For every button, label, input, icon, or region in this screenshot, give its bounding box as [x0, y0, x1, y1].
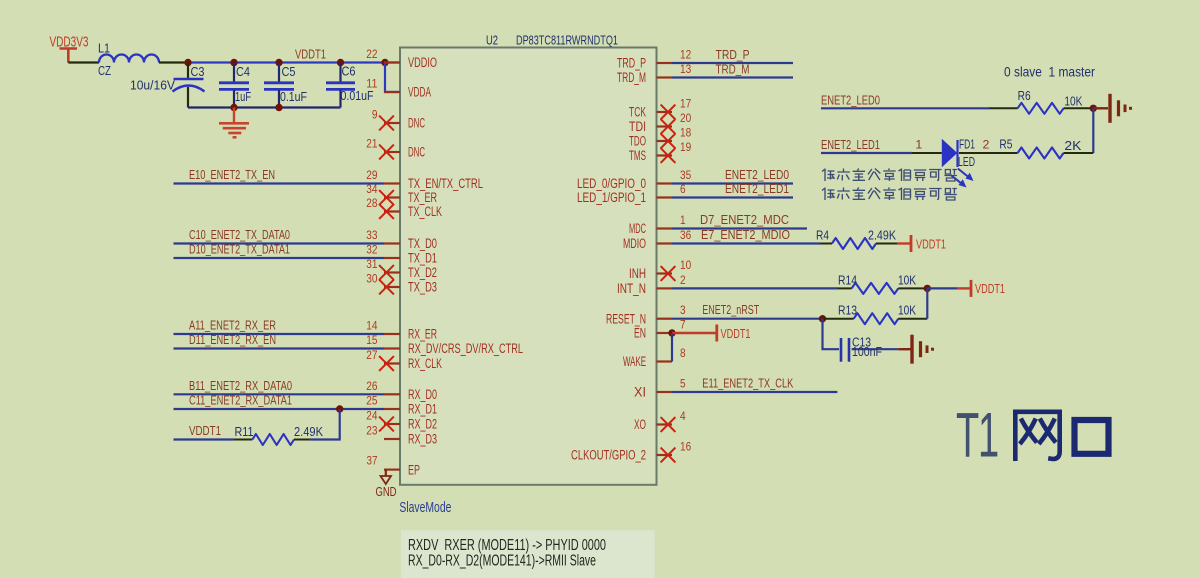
svg-text:RX_D1: RX_D1 — [408, 402, 437, 417]
svg-text:R4: R4 — [816, 228, 829, 243]
pin 2 INT_N — [617, 273, 686, 296]
svg-text:CZ: CZ — [98, 63, 111, 78]
wire L1 to node VDDT1 rail — [159, 61, 188, 63]
svg-text:RESET_N: RESET_N — [606, 311, 646, 326]
note SlaveMode — [399, 499, 451, 516]
svg-text:RX_D3: RX_D3 — [408, 432, 437, 447]
svg-text:D10_ENET2_TX_DATA1: D10_ENET2_TX_DATA1 — [189, 242, 290, 257]
svg-text:22: 22 — [366, 47, 377, 61]
resistor R13 10K — [823, 303, 928, 325]
svg-text:R11: R11 — [235, 424, 254, 439]
svg-text:30: 30 — [366, 272, 377, 286]
svg-text:5: 5 — [680, 377, 686, 391]
svg-text:D11_ENET2_RX_EN: D11_ENET2_RX_EN — [189, 332, 276, 347]
svg-text:2: 2 — [680, 273, 686, 287]
pin 30 TX_D3 — [366, 272, 437, 295]
wire net E7_ENET2_MDIO — [672, 242, 820, 244]
node junction on nRST wire — [819, 315, 826, 322]
svg-text:RX_DV/CRS_DV/RX_CTRL: RX_DV/CRS_DV/RX_CTRL — [408, 341, 523, 356]
svg-text:L1: L1 — [98, 41, 110, 56]
svg-text:TRD_M: TRD_M — [716, 62, 750, 77]
pin 14 RX_ER — [366, 319, 437, 342]
pin 37 EP — [367, 454, 421, 478]
wire net D10_ENET2_TX_DATA1 — [174, 257, 385, 259]
svg-text:TX_EN/TX_CTRL: TX_EN/TX_CTRL — [408, 176, 483, 191]
resistor R11 2.49K — [234, 424, 323, 445]
net label D10_ENET2_TX_DATA1 — [189, 242, 290, 257]
svg-text:23: 23 — [366, 424, 377, 438]
svg-text:29: 29 — [366, 168, 377, 182]
node junction at L1/C3 — [184, 59, 191, 66]
svg-text:TRD_P: TRD_P — [716, 47, 750, 62]
wire net ENET2_LED1 at pin 6 — [672, 196, 793, 198]
power flag VDDT1 at R4 — [911, 235, 946, 252]
pin 31 TX_D2 — [366, 257, 437, 280]
wire junction down to R5 — [1092, 108, 1094, 153]
pin 3 RESET_N — [606, 303, 686, 326]
svg-text:ENET2_LED0: ENET2_LED0 — [821, 92, 880, 107]
svg-text:20: 20 — [680, 111, 691, 125]
ground below C4 — [219, 108, 249, 138]
resistor R5 2K — [959, 137, 1093, 159]
wire net E11_ENET2_TX_CLK — [672, 391, 837, 393]
pin 24 RX_D2 — [366, 409, 437, 432]
svg-text:VDDT1: VDDT1 — [721, 326, 751, 341]
svg-text:8: 8 — [680, 346, 686, 360]
svg-text:EN: EN — [634, 326, 646, 341]
pin 16 CLKOUT/GPIO_2 — [571, 440, 691, 463]
net label E7_ENET2_MDIO — [701, 227, 790, 242]
pin 29 TX_EN/TX_CTRL — [366, 168, 483, 191]
svg-text:33: 33 — [366, 228, 377, 242]
node junction top of C5 — [275, 59, 282, 66]
svg-text:RX_CLK: RX_CLK — [408, 356, 442, 371]
svg-text:E11_ENET2_TX_CLK: E11_ENET2_TX_CLK — [702, 376, 793, 391]
svg-text:26: 26 — [366, 379, 377, 393]
svg-text:VDDA: VDDA — [408, 85, 431, 100]
svg-text:28: 28 — [366, 196, 377, 210]
svg-text:CLKOUT/GPIO_2: CLKOUT/GPIO_2 — [571, 448, 646, 463]
svg-text:INT_N: INT_N — [617, 281, 646, 296]
svg-text:TX_ER: TX_ER — [408, 190, 437, 205]
svg-text:RX_D0: RX_D0 — [408, 387, 437, 402]
wire junction down to R11 — [309, 409, 340, 440]
svg-text:C10_ENET2_TX_DATA0: C10_ENET2_TX_DATA0 — [189, 227, 290, 242]
svg-text:C11_ENET2_RX_DATA1: C11_ENET2_RX_DATA1 — [189, 393, 292, 408]
chinese note row 1 — [822, 169, 957, 182]
svg-text:16: 16 — [680, 440, 691, 454]
ground GND at EP — [376, 470, 397, 499]
net label B11_ENET2_RX_DATA0 — [189, 378, 292, 393]
net label ENET2_nRST — [702, 302, 759, 317]
svg-text:3: 3 — [680, 303, 686, 317]
svg-text:FD1: FD1 — [959, 137, 975, 152]
svg-text:DP83TC811RWRNDTQ1: DP83TC811RWRNDTQ1 — [516, 33, 618, 48]
net label VDDT1 at R11 — [189, 423, 221, 438]
svg-text:LED: LED — [958, 154, 975, 169]
svg-text:21: 21 — [366, 137, 377, 151]
wire ground bottom rail — [188, 106, 341, 108]
IC U2 DP83TC811RWRNDTQ1 body — [400, 48, 657, 485]
svg-text:VDDT1: VDDT1 — [975, 281, 1005, 296]
net label TRD_P — [716, 47, 750, 62]
wire net TRD_P — [672, 62, 793, 64]
svg-text:RX_D2: RX_D2 — [408, 417, 437, 432]
svg-text:DNC: DNC — [408, 145, 425, 160]
wire EN down to WAKE pin 8 — [671, 333, 673, 362]
pin 25 RX_D1 — [366, 394, 437, 417]
pin 20 TDI — [629, 111, 691, 134]
wire net A11_ENET2_RX_ER — [174, 333, 385, 335]
svg-text:100nF: 100nF — [852, 344, 882, 359]
pin 4 XO — [634, 409, 686, 432]
net label VDDT1 top — [295, 47, 326, 62]
chinese note row 2 — [822, 188, 957, 201]
svg-text:E7_ENET2_MDIO: E7_ENET2_MDIO — [701, 227, 790, 242]
pin 18 TDO — [629, 126, 691, 149]
node junction top of C4 — [230, 59, 237, 66]
wire net D11_ENET2_RX_EN — [174, 347, 385, 349]
svg-text:R6: R6 — [1018, 88, 1031, 103]
wire C13 to ground — [898, 348, 910, 350]
capacitor C3 10u/16V polarized — [130, 63, 205, 108]
pin 15 RX_DV/CRS_DV/RX_CTRL — [366, 333, 523, 356]
wire net B11_ENET2_RX_DATA0 — [174, 393, 385, 395]
pin 10 INH — [629, 258, 691, 281]
wire net D7_ENET2_MDC — [672, 227, 807, 229]
pin number 1 of FD1 — [915, 138, 922, 152]
resistor R6 10K — [989, 88, 1093, 114]
node junction at pin 7 EN — [668, 329, 675, 336]
wire net C10_ENET2_TX_DATA0 — [174, 242, 385, 244]
svg-text:TDO: TDO — [629, 134, 646, 149]
pin 26 RX_D0 — [366, 379, 437, 402]
net label D11_ENET2_RX_EN — [189, 332, 276, 347]
wire R14 to VDDT1 — [927, 287, 971, 289]
pin 34 TX_ER — [366, 182, 437, 205]
power flag VDDT1 at R14 — [971, 280, 1005, 297]
wire net TRD_M — [672, 76, 793, 78]
svg-text:VDDT1: VDDT1 — [916, 236, 946, 251]
svg-text:T1: T1 — [956, 401, 998, 471]
pin 36 MDIO — [623, 228, 691, 251]
svg-text:2K: 2K — [1064, 138, 1081, 153]
resistor R4 2.49K — [816, 228, 897, 250]
net label ENET2_LED1 — [725, 181, 789, 196]
pin 12 TRD_P — [617, 48, 691, 71]
svg-text:R13: R13 — [838, 303, 857, 318]
net label E11_ENET2_TX_CLK — [702, 376, 793, 391]
svg-text:1: 1 — [915, 138, 922, 152]
svg-text:ENET2_LED1: ENET2_LED1 — [725, 181, 789, 196]
node junction on RX_D1 wire — [336, 405, 343, 412]
wire net INT_N to R14 — [672, 287, 838, 289]
svg-text:R14: R14 — [838, 273, 857, 288]
svg-text:DNC: DNC — [408, 116, 425, 131]
svg-text:TCK: TCK — [629, 105, 646, 120]
pin 8 WAKE — [623, 346, 686, 369]
svg-text:24: 24 — [366, 409, 377, 423]
capacitor C5 0.1uF — [264, 63, 307, 108]
wire VDDT1 top rail — [188, 61, 400, 63]
svg-text:25: 25 — [366, 394, 377, 408]
LED FD1 — [912, 137, 975, 188]
svg-text:1: 1 — [680, 213, 686, 227]
svg-text:VDDT1: VDDT1 — [189, 423, 221, 438]
svg-text:D7_ENET2_MDC: D7_ENET2_MDC — [700, 212, 789, 227]
svg-text:2.49K: 2.49K — [294, 424, 323, 439]
svg-text:VDDIO: VDDIO — [408, 55, 437, 70]
svg-text:10u/16V: 10u/16V — [130, 78, 175, 93]
svg-text:37: 37 — [367, 454, 378, 468]
power flag VDD3V3 — [50, 35, 89, 63]
part number DP83TC811RWRNDTQ1 — [516, 33, 618, 48]
capacitor C13 100nF — [841, 335, 898, 362]
net label TRD_M — [716, 62, 750, 77]
svg-text:TRD_P: TRD_P — [617, 56, 646, 71]
svg-text:4: 4 — [680, 409, 686, 423]
inductor L1 — [98, 41, 159, 79]
svg-text:VDDT1: VDDT1 — [295, 47, 326, 62]
net label A11_ENET2_RX_ER — [189, 318, 276, 333]
wire net ENET2_LED1 to LED — [821, 152, 912, 154]
wire VDD3V3 to L1 — [68, 61, 99, 63]
ground at R6 — [1110, 94, 1131, 123]
svg-text:RXDV RXER (MODE11) -> PHYID 0: RXDV RXER (MODE11) -> PHYID 0000 — [408, 537, 606, 554]
svg-text:27: 27 — [366, 348, 377, 362]
svg-text:18: 18 — [680, 126, 691, 140]
svg-text:ENET2_LED0: ENET2_LED0 — [725, 167, 789, 182]
svg-text:10: 10 — [680, 258, 691, 272]
svg-text:TX_D3: TX_D3 — [408, 280, 437, 295]
capacitor C4 1uF — [219, 63, 251, 108]
svg-text:MDIO: MDIO — [623, 236, 646, 251]
note 0 slave 1 master — [1004, 64, 1095, 80]
svg-text:ENET2_LED1: ENET2_LED1 — [821, 137, 880, 152]
svg-text:17: 17 — [680, 97, 691, 111]
node junction R14 right — [924, 285, 931, 292]
pin 1 MDC — [629, 213, 686, 236]
wire R4 to VDDT1 — [897, 242, 911, 244]
svg-text:LED_0/GPIO_0: LED_0/GPIO_0 — [577, 176, 646, 191]
svg-text:R5: R5 — [999, 137, 1012, 152]
pin 22 VDDIO — [366, 47, 437, 70]
svg-text:1uF: 1uF — [235, 89, 251, 104]
svg-text:11: 11 — [366, 77, 377, 91]
svg-text:SlaveMode: SlaveMode — [399, 499, 451, 516]
svg-text:32: 32 — [366, 243, 377, 257]
svg-text:TDI: TDI — [629, 119, 646, 134]
svg-text:MDC: MDC — [629, 221, 646, 236]
svg-text:XI: XI — [634, 385, 646, 400]
svg-text:0.1uF: 0.1uF — [280, 89, 307, 104]
svg-text:C6: C6 — [342, 64, 356, 79]
svg-text:14: 14 — [366, 319, 377, 333]
svg-text:TX_D1: TX_D1 — [408, 251, 437, 266]
pin 6 LED_1/GPIO_1 — [577, 182, 686, 205]
wire net C11_ENET2_RX_DATA1 — [174, 408, 385, 410]
power flag VDDT1 at EN — [717, 325, 751, 342]
svg-text:EP: EP — [408, 462, 420, 477]
wire net E10_ENET2_TX_EN — [174, 182, 385, 184]
svg-text:C4: C4 — [236, 64, 250, 79]
title T1 — [956, 401, 998, 471]
pin 32 TX_D1 — [366, 243, 437, 266]
svg-text:LED_1/GPIO_1: LED_1/GPIO_1 — [577, 190, 646, 205]
svg-text:TX_CLK: TX_CLK — [408, 204, 442, 219]
svg-text:0 slave 1 master: 0 slave 1 master — [1004, 64, 1095, 80]
pin 7 EN — [634, 318, 686, 341]
svg-text:10K: 10K — [898, 303, 916, 318]
svg-text:10K: 10K — [898, 273, 916, 288]
resistor R14 10K — [838, 273, 927, 294]
pin 9 DNC — [372, 108, 425, 131]
pin 35 LED_0/GPIO_0 — [577, 168, 691, 191]
svg-text:9: 9 — [372, 108, 378, 122]
pin 17 TCK — [629, 97, 691, 120]
ground at C13 — [912, 335, 933, 364]
svg-text:RX_ER: RX_ER — [408, 327, 437, 342]
pin 23 RX_D3 — [366, 424, 437, 447]
svg-text:TRD_M: TRD_M — [617, 70, 646, 85]
note box RXDV — [401, 530, 655, 578]
svg-text:TX_D0: TX_D0 — [408, 236, 437, 251]
wire EN to VDDT1 — [672, 332, 717, 334]
wire R13 up to R14 junction — [926, 288, 928, 318]
pin 11 VDDA — [366, 77, 431, 100]
designator U2 — [486, 33, 498, 48]
wire net ENET2_nRST — [672, 318, 823, 320]
wire junction down to C13 — [823, 319, 840, 350]
svg-text:2.49K: 2.49K — [868, 228, 896, 243]
wire VDDT1 to R11 — [174, 438, 235, 440]
net label D7_ENET2_MDC — [700, 212, 789, 227]
svg-text:XO: XO — [634, 417, 646, 432]
svg-text:TMS: TMS — [629, 148, 646, 163]
pin 28 TX_CLK — [366, 196, 442, 219]
svg-text:RX_D0-RX_D2(MODE141)->RMII Sla: RX_D0-RX_D2(MODE141)->RMII Slave — [408, 553, 596, 570]
svg-text:C5: C5 — [282, 64, 296, 79]
svg-text:12: 12 — [680, 48, 691, 62]
capacitor C6 0.01uF — [326, 63, 374, 108]
node junction bottom of C5 — [275, 104, 282, 111]
net label ENET2_LED1 at FD1 — [821, 137, 880, 152]
title chinese wang kou — [1013, 412, 1109, 461]
svg-text:B11_ENET2_RX_DATA0: B11_ENET2_RX_DATA0 — [189, 378, 292, 393]
svg-text:E10_ENET2_TX_EN: E10_ENET2_TX_EN — [189, 167, 275, 182]
pin 33 TX_D0 — [366, 228, 437, 251]
svg-text:WAKE: WAKE — [623, 354, 646, 369]
node junction top of C6 — [337, 59, 344, 66]
svg-text:10K: 10K — [1064, 94, 1082, 109]
pin 21 DNC — [366, 137, 425, 160]
pin number 2 of FD1 — [983, 138, 990, 152]
net label ENET2_LED0 at R6 — [821, 92, 880, 107]
pin 5 XI — [634, 377, 686, 400]
net label C11_ENET2_RX_DATA1 — [189, 393, 292, 408]
svg-text:2: 2 — [983, 138, 990, 152]
net label ENET2_LED0 — [725, 167, 789, 182]
net label E10_ENET2_TX_EN — [189, 167, 275, 182]
wire net ENET2_LED0 to R6 — [821, 107, 989, 109]
svg-text:19: 19 — [680, 140, 691, 154]
svg-text:A11_ENET2_RX_ER: A11_ENET2_RX_ER — [189, 318, 276, 333]
pin 13 TRD_M — [617, 62, 691, 85]
node junction bottom of C4 — [230, 104, 237, 111]
wire net ENET2_LED0 at pin 35 — [672, 182, 793, 184]
svg-text:GND: GND — [376, 484, 397, 499]
svg-text:ENET2_nRST: ENET2_nRST — [702, 302, 759, 317]
svg-text:TX_D2: TX_D2 — [408, 265, 437, 280]
pin 19 TMS — [629, 140, 691, 163]
wire branch to VDDA pin 11 — [385, 63, 400, 93]
svg-text:35: 35 — [680, 168, 691, 182]
svg-text:U2: U2 — [486, 33, 498, 48]
pin 27 RX_CLK — [366, 348, 442, 371]
node junction R6 right — [1090, 105, 1097, 112]
svg-text:36: 36 — [680, 228, 691, 242]
node junction at pin22 branch — [381, 59, 388, 66]
wire R6 junction to ground — [1093, 107, 1108, 109]
svg-text:INH: INH — [629, 266, 646, 281]
net label C10_ENET2_TX_DATA0 — [189, 227, 290, 242]
svg-text:C3: C3 — [191, 64, 205, 79]
